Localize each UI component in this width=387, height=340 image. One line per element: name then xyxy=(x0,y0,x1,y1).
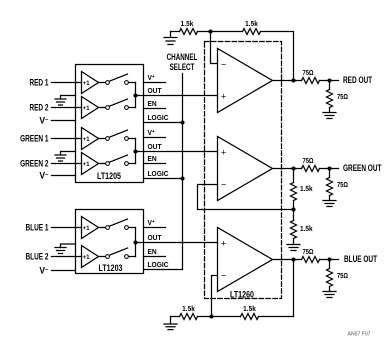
svg-text:GREEN 2: GREEN 2 xyxy=(20,158,49,168)
svg-text:1.5k: 1.5k xyxy=(182,306,195,313)
svg-text:75Ω: 75Ω xyxy=(303,70,314,78)
svg-text:SELECT: SELECT xyxy=(170,62,195,72)
svg-text:GREEN OUT: GREEN OUT xyxy=(343,163,382,173)
svg-text:V+: V+ xyxy=(148,75,155,82)
svg-text:75Ω: 75Ω xyxy=(303,158,314,166)
svg-text:LT1203: LT1203 xyxy=(99,263,123,273)
svg-text:OUT: OUT xyxy=(148,235,163,242)
svg-text:+: + xyxy=(221,148,226,158)
svg-text:LOGIC: LOGIC xyxy=(148,115,169,122)
svg-text:BLUE 2: BLUE 2 xyxy=(25,251,49,261)
svg-text:−: − xyxy=(221,60,226,70)
svg-text:BLUE OUT: BLUE OUT xyxy=(344,254,377,264)
svg-text:1.5k: 1.5k xyxy=(181,21,194,28)
svg-text:LOGIC: LOGIC xyxy=(148,262,169,269)
svg-text:75Ω: 75Ω xyxy=(337,94,348,102)
svg-text:LT1260: LT1260 xyxy=(230,290,254,300)
svg-text:75Ω: 75Ω xyxy=(337,182,348,190)
svg-text:EN: EN xyxy=(148,156,157,163)
svg-text:OUT: OUT xyxy=(148,88,163,95)
svg-text:1.5k: 1.5k xyxy=(243,306,256,313)
svg-text:1.5k: 1.5k xyxy=(245,21,258,28)
svg-text:+1: +1 xyxy=(83,225,90,232)
svg-text:+: + xyxy=(221,239,226,249)
svg-text:+1: +1 xyxy=(83,136,90,143)
svg-text:+: + xyxy=(221,92,226,102)
svg-text:1.5k: 1.5k xyxy=(300,186,313,193)
svg-text:CHANNEL: CHANNEL xyxy=(167,52,198,62)
svg-text:GREEN 1: GREEN 1 xyxy=(20,133,49,143)
svg-text:75Ω: 75Ω xyxy=(337,273,348,281)
svg-text:+1: +1 xyxy=(83,161,90,168)
svg-text:−: − xyxy=(221,271,226,281)
svg-text:LT1205: LT1205 xyxy=(97,171,121,181)
svg-text:1.5k: 1.5k xyxy=(300,226,313,233)
svg-text:+1: +1 xyxy=(83,254,90,261)
svg-text:+1: +1 xyxy=(83,80,90,87)
svg-text:OUT: OUT xyxy=(148,144,163,151)
svg-text:LOGIC: LOGIC xyxy=(148,171,169,178)
svg-text:−: − xyxy=(221,180,226,190)
svg-text:EN: EN xyxy=(148,249,157,256)
svg-text:AN57 F07: AN57 F07 xyxy=(348,332,371,338)
svg-text:V+: V+ xyxy=(148,130,155,137)
svg-text:V–: V– xyxy=(39,115,49,125)
svg-text:BLUE 1: BLUE 1 xyxy=(25,222,49,232)
svg-text:RED 2: RED 2 xyxy=(29,102,49,112)
svg-text:75Ω: 75Ω xyxy=(303,249,314,257)
svg-text:RED OUT: RED OUT xyxy=(343,75,372,85)
svg-text:V–: V– xyxy=(39,170,49,180)
svg-text:+1: +1 xyxy=(83,105,90,112)
svg-text:V+: V+ xyxy=(148,220,155,227)
svg-text:V–: V– xyxy=(39,265,49,275)
svg-text:RED 1: RED 1 xyxy=(29,77,49,87)
svg-text:EN: EN xyxy=(148,101,157,108)
